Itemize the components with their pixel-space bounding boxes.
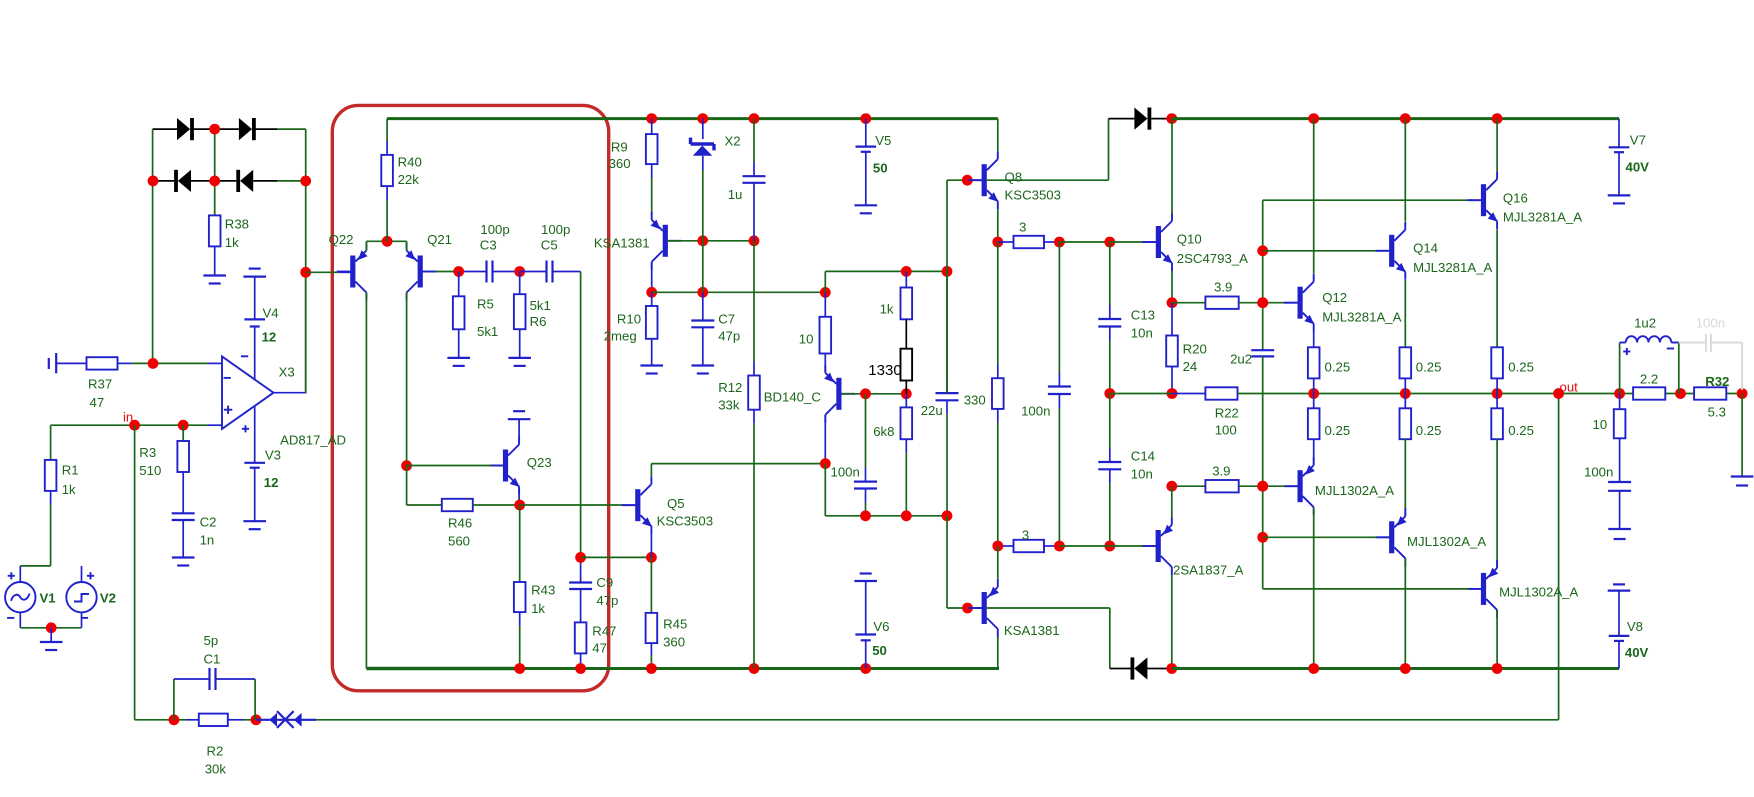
junction — [860, 663, 871, 674]
svg-text:C2: C2 — [200, 515, 217, 530]
wire — [1618, 641, 1620, 669]
resistor 0.25 — [1491, 347, 1503, 378]
wire — [1058, 242, 1060, 373]
svg-text:R37: R37 — [88, 377, 112, 392]
resistor 0.25 — [1308, 408, 1320, 439]
transistor Q8 — [968, 151, 998, 209]
wire — [1496, 439, 1498, 567]
svg-text:V4: V4 — [263, 306, 279, 321]
resistor R6 — [514, 294, 526, 329]
svg-text:1330: 1330 — [868, 362, 901, 379]
junction — [646, 663, 657, 674]
wire — [703, 240, 754, 242]
wire — [651, 463, 824, 465]
svg-text:6k8: 6k8 — [873, 424, 894, 439]
junction — [209, 176, 220, 187]
resistor 1k — [901, 288, 913, 320]
wire — [947, 179, 982, 181]
op-amp X3 — [222, 357, 274, 429]
svg-text:100n: 100n — [1584, 465, 1613, 480]
junction — [148, 176, 159, 187]
wire — [19, 612, 21, 627]
wire — [1109, 469, 1111, 483]
wire — [1108, 119, 1110, 181]
svg-text:C3: C3 — [480, 238, 497, 253]
wire — [1678, 343, 1680, 394]
wire — [998, 241, 1014, 243]
wire — [1110, 668, 1131, 670]
wire — [702, 170, 704, 292]
svg-text:MJL1302A_A: MJL1302A_A — [1407, 534, 1486, 549]
capacitor 100n — [854, 482, 877, 489]
wire — [1172, 485, 1206, 487]
diode D6 — [1131, 657, 1148, 679]
transistor Q14 — [1376, 222, 1406, 280]
junction — [514, 266, 525, 277]
junction — [575, 552, 586, 563]
wire — [824, 464, 826, 516]
wire emitter — [997, 637, 999, 669]
junction — [209, 124, 220, 135]
svg-text:40V: 40V — [1626, 160, 1650, 175]
wire — [702, 327, 704, 365]
svg-text:Q23: Q23 — [527, 455, 552, 470]
wire — [254, 468, 256, 522]
svg-text:C7: C7 — [718, 312, 735, 327]
wire — [519, 626, 521, 668]
ground — [1608, 584, 1631, 590]
wire collector — [997, 546, 999, 579]
resistor R37 — [87, 357, 118, 369]
junction — [1308, 663, 1319, 674]
resistor R32 — [1694, 387, 1726, 399]
svg-text:2meg: 2meg — [604, 329, 637, 344]
transistor Q4 KSA1381 — [651, 212, 682, 270]
wire — [1058, 408, 1060, 546]
wire — [987, 179, 1109, 181]
wire — [753, 424, 755, 669]
wire — [702, 119, 704, 139]
junction — [1167, 388, 1178, 399]
wire — [651, 178, 653, 214]
svg-text:100: 100 — [1215, 423, 1237, 438]
wire — [520, 504, 623, 506]
resistor R2 — [199, 714, 228, 726]
wire top rail — [652, 117, 998, 120]
wire Q16 collector — [1496, 119, 1498, 171]
svg-text:in: in — [123, 410, 133, 425]
svg-text:C14: C14 — [1131, 449, 1155, 464]
junction — [992, 237, 1003, 248]
junction — [646, 552, 657, 563]
junction — [514, 663, 525, 674]
wire collector — [1496, 610, 1498, 668]
svg-text:R2: R2 — [207, 744, 224, 759]
svg-text:R3: R3 — [139, 445, 156, 460]
wire — [1143, 545, 1156, 547]
wire — [865, 489, 867, 503]
junction — [860, 113, 871, 124]
svg-text:330: 330 — [964, 393, 986, 408]
wire feedback — [316, 719, 1558, 721]
ground — [508, 411, 531, 419]
wire — [20, 627, 81, 629]
wire — [458, 272, 460, 297]
wire — [997, 423, 999, 546]
capacitor C3 — [487, 261, 493, 283]
svg-text:50: 50 — [873, 161, 888, 176]
ground — [40, 642, 63, 650]
resistor 10 — [820, 317, 832, 354]
wire — [581, 556, 652, 558]
junction — [697, 235, 708, 246]
svg-text:0.25: 0.25 — [1325, 360, 1351, 375]
wire BD140 collector — [824, 415, 826, 463]
resistor R12 — [748, 376, 760, 410]
svg-text:5k1: 5k1 — [477, 324, 498, 339]
junction — [1400, 113, 1411, 124]
svg-text:X3: X3 — [279, 365, 295, 380]
wire — [1172, 302, 1205, 304]
svg-text:MJL1302A_A: MJL1302A_A — [1499, 585, 1578, 600]
svg-text:2u2: 2u2 — [1230, 352, 1252, 367]
wire — [50, 425, 52, 460]
wire — [947, 607, 969, 609]
wire — [153, 128, 177, 130]
wire — [1109, 394, 1111, 449]
junction — [646, 113, 657, 124]
svg-text:V1: V1 — [40, 591, 56, 606]
wire — [173, 679, 175, 720]
svg-text:R32: R32 — [1705, 374, 1729, 389]
svg-text:3.9: 3.9 — [1214, 280, 1232, 295]
wire — [623, 504, 636, 506]
wire — [651, 119, 653, 135]
wire — [651, 339, 653, 366]
svg-text:1k: 1k — [531, 601, 545, 616]
resistor R43 — [514, 582, 526, 612]
wire — [753, 410, 755, 424]
junction — [178, 420, 189, 431]
wire — [946, 400, 948, 414]
wire — [174, 678, 210, 680]
svg-text:R40: R40 — [398, 155, 422, 170]
diode D5 — [1134, 108, 1151, 130]
wire — [386, 200, 388, 241]
wire — [1171, 367, 1173, 394]
junction — [300, 267, 311, 278]
wire — [865, 152, 867, 206]
wire bottom bus — [366, 667, 519, 670]
svg-text:V2: V2 — [100, 591, 116, 606]
wire — [1110, 241, 1144, 243]
junction — [749, 113, 760, 124]
wire — [702, 292, 704, 320]
transistor Q12 — [1284, 274, 1314, 332]
wire — [519, 612, 521, 626]
source V1 — [5, 582, 35, 612]
svg-text:360: 360 — [663, 635, 685, 650]
transistor MJL1302A_A — [1467, 560, 1498, 618]
svg-text:R20: R20 — [1183, 342, 1207, 357]
wire top rail — [387, 117, 652, 120]
svg-text:Q5: Q5 — [667, 496, 685, 511]
wire — [1109, 448, 1111, 462]
wire — [1618, 152, 1620, 195]
svg-text:0.25: 0.25 — [1508, 423, 1534, 438]
svg-text:1k: 1k — [62, 482, 76, 497]
resistor R22 — [1205, 387, 1237, 399]
svg-text:MJL1302A_A: MJL1302A_A — [1315, 483, 1394, 498]
wire Q10 emitter — [1171, 271, 1173, 303]
svg-text:KSA1381: KSA1381 — [594, 236, 650, 251]
capacitor C9 — [569, 583, 592, 590]
junction — [1492, 113, 1503, 124]
wire — [192, 128, 239, 130]
wire — [152, 129, 154, 363]
wire — [493, 271, 520, 273]
svg-text:40V: 40V — [1625, 645, 1649, 660]
wire — [519, 505, 521, 582]
wire — [753, 183, 755, 241]
junction — [1492, 663, 1503, 674]
wire — [969, 607, 982, 609]
svg-text:12: 12 — [262, 330, 277, 345]
wire output rail — [1238, 393, 1743, 395]
wire — [753, 241, 755, 362]
junction — [1308, 388, 1319, 399]
wire Q23 emitter — [518, 487, 520, 506]
ground — [1608, 195, 1631, 203]
wire — [905, 271, 907, 287]
junction — [169, 714, 180, 725]
wire — [1285, 485, 1298, 487]
svg-text:1u: 1u — [728, 187, 743, 202]
svg-text:1u2: 1u2 — [1634, 316, 1656, 331]
wire — [905, 453, 907, 516]
transistor Q22 — [337, 243, 368, 301]
wire — [1263, 302, 1284, 304]
junction — [992, 541, 1003, 552]
wire — [1313, 439, 1315, 465]
resistor 2.2 — [1633, 387, 1665, 399]
wire — [473, 504, 520, 506]
wire — [254, 679, 256, 720]
wire — [946, 516, 948, 608]
svg-text:360: 360 — [609, 156, 631, 171]
svg-text:100n: 100n — [831, 465, 860, 480]
junction — [942, 266, 953, 277]
ground — [854, 574, 877, 582]
wire — [208, 362, 222, 364]
ground — [640, 366, 663, 374]
wire Q12 collector — [1313, 119, 1315, 274]
junction — [1492, 388, 1503, 399]
wire — [50, 504, 52, 566]
capacitor 22u — [936, 393, 959, 400]
wire — [365, 241, 367, 250]
wire Q22 collector — [365, 293, 367, 669]
ground — [243, 269, 266, 277]
wire — [459, 271, 487, 273]
svg-text:3: 3 — [1019, 220, 1026, 235]
wire collector — [1313, 508, 1315, 669]
wire — [1143, 241, 1156, 243]
wire — [1044, 545, 1059, 547]
wire — [1284, 302, 1297, 304]
svg-text:5.3: 5.3 — [1708, 405, 1726, 420]
svg-text:100n: 100n — [1021, 404, 1050, 419]
capacitor 100n — [1608, 482, 1631, 491]
wire — [753, 162, 755, 176]
wire — [406, 466, 408, 505]
junction — [300, 176, 311, 187]
wire — [753, 362, 755, 376]
wire — [182, 472, 184, 513]
wire — [81, 612, 83, 627]
wire — [243, 719, 256, 721]
wire — [1172, 393, 1205, 395]
wire — [1263, 536, 1377, 538]
transistor Q5 — [622, 476, 652, 534]
svg-text:R1: R1 — [62, 463, 79, 478]
capacitor C1 — [210, 668, 216, 690]
wire — [1619, 394, 1621, 410]
wire collector — [1404, 559, 1406, 669]
wire Q14 emitter — [1404, 280, 1406, 347]
wire — [865, 581, 867, 635]
resistor R40 — [381, 155, 393, 186]
junction — [1257, 532, 1268, 543]
svg-text:47: 47 — [592, 641, 607, 656]
diode D4 — [236, 170, 253, 192]
svg-text:1n: 1n — [200, 533, 215, 548]
svg-text:AD817_AD: AD817_AD — [280, 433, 346, 448]
svg-text:100p: 100p — [541, 222, 570, 237]
svg-text:KSC3503: KSC3503 — [657, 514, 713, 529]
junction — [1553, 388, 1564, 399]
svg-text:24: 24 — [1183, 359, 1198, 374]
transistor KSA1381 — [968, 579, 999, 637]
wire — [650, 655, 652, 669]
junction — [1166, 481, 1177, 492]
wire op-amp output — [274, 392, 306, 394]
svg-text:1k: 1k — [225, 235, 239, 250]
wire collector — [1171, 575, 1173, 669]
wire mid rail — [1110, 393, 1172, 395]
wire — [519, 329, 521, 358]
wire — [1109, 483, 1111, 546]
resistor 330 — [992, 378, 1004, 409]
battery V6 — [855, 635, 876, 641]
wire — [153, 180, 175, 182]
capacitor C2 — [172, 513, 195, 520]
junction — [1257, 297, 1268, 308]
wire — [651, 164, 653, 178]
wire — [50, 491, 52, 504]
wire — [277, 128, 306, 130]
wire — [491, 465, 504, 467]
transistor Q21 — [405, 243, 436, 301]
resistor 0.25 — [1491, 408, 1503, 439]
junction — [749, 663, 760, 674]
junction — [46, 622, 57, 633]
ground — [172, 558, 195, 566]
wire — [998, 545, 1014, 547]
junction — [1400, 388, 1411, 399]
capacitor C5 — [547, 261, 553, 283]
svg-text:47: 47 — [90, 395, 105, 410]
svg-text:C9: C9 — [596, 575, 613, 590]
wire — [553, 271, 581, 273]
wire — [1496, 394, 1498, 409]
svg-text:33k: 33k — [718, 398, 740, 413]
wire — [1313, 378, 1315, 393]
svg-text:2.2: 2.2 — [1640, 372, 1658, 387]
transistor MJL1302A_A — [1284, 457, 1315, 515]
junction — [749, 235, 760, 246]
zener diode X2 — [691, 138, 715, 156]
wire — [651, 263, 653, 293]
junction — [962, 175, 973, 186]
wire — [407, 504, 442, 506]
svg-text:R45: R45 — [663, 617, 687, 632]
resistor R9 — [646, 134, 658, 164]
wire — [946, 271, 948, 379]
svg-text:Q12: Q12 — [1322, 290, 1347, 305]
wire — [214, 129, 216, 215]
wire — [1619, 438, 1621, 482]
wire — [277, 180, 306, 182]
junction — [251, 714, 262, 725]
wire — [366, 240, 406, 242]
wire — [946, 271, 948, 393]
resistor R38 — [209, 215, 221, 246]
wire Q23 collector — [518, 419, 520, 444]
svg-text:3: 3 — [1022, 528, 1029, 543]
svg-text:R12: R12 — [718, 380, 742, 395]
svg-text:30k: 30k — [205, 762, 227, 777]
wire — [865, 119, 867, 147]
wire — [1619, 343, 1621, 394]
wire — [214, 247, 216, 276]
junction — [1054, 237, 1065, 248]
wire — [1109, 327, 1111, 341]
junction — [1675, 388, 1686, 399]
resistor R20 — [1166, 336, 1178, 367]
wire — [969, 179, 982, 181]
junction — [1400, 663, 1411, 674]
wire — [254, 276, 256, 319]
diode D2 — [239, 118, 256, 140]
wire — [458, 329, 460, 358]
wire — [208, 424, 222, 426]
junction — [148, 358, 159, 369]
svg-text:R6: R6 — [530, 314, 547, 329]
wire — [580, 272, 582, 558]
transistor Q23 — [489, 437, 519, 495]
junction — [962, 603, 973, 614]
wire — [1262, 356, 1264, 589]
wire — [987, 607, 1110, 609]
wire — [997, 242, 999, 364]
wire — [905, 319, 907, 348]
svg-text:Q10: Q10 — [1177, 232, 1202, 247]
wire — [1618, 119, 1620, 148]
wire — [135, 719, 186, 721]
resistor 0.25 — [1308, 347, 1320, 378]
wire — [825, 270, 947, 272]
